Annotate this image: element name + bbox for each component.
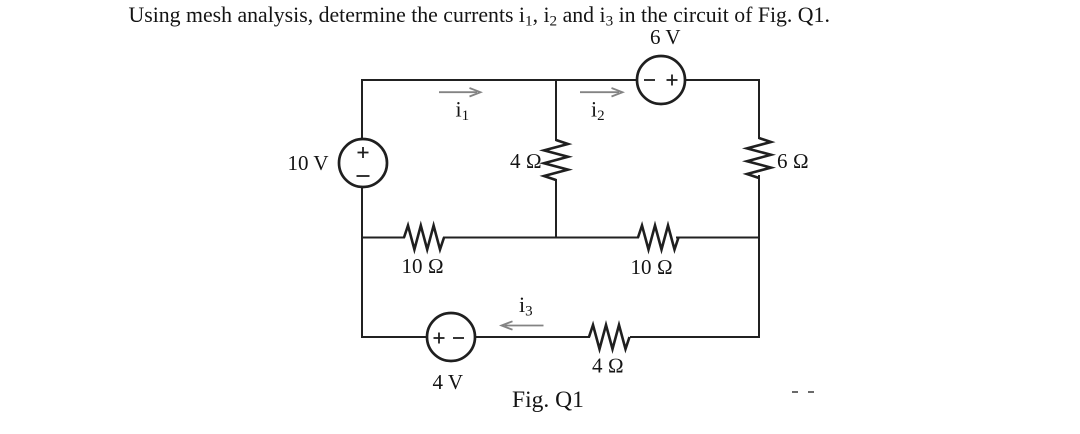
resistor 10 ohm (right, middle wire) (638, 226, 679, 250)
svg-text:i3: i3 (519, 292, 533, 320)
svg-text:4 V: 4 V (433, 370, 464, 394)
4V plus sign (434, 333, 445, 344)
wire middle branch upper (top wire to 4-ohm resistor) (555, 80, 557, 140)
current arrow i1 (439, 88, 481, 97)
wire bottom middle segment (4V source to 4-ohm resistor) (475, 336, 589, 338)
svg-text:i2: i2 (591, 97, 605, 125)
wire middle horizontal center segment (444, 237, 638, 239)
10V minus sign (357, 175, 370, 177)
stray mark left dash (792, 391, 798, 393)
svg-text:4 Ω: 4 Ω (592, 354, 624, 378)
4V minus sign (453, 337, 464, 339)
voltage source 6 V circle (637, 56, 685, 104)
6V minus sign (644, 79, 655, 81)
voltage source 4 V circle (427, 313, 475, 361)
svg-text:6 V: 6 V (650, 25, 681, 49)
svg-text:10 V: 10 V (288, 151, 329, 175)
wire bottom right segment (4-ohm resistor to bottom-right corner) (631, 336, 759, 338)
resistor 4 ohm (bottom wire) (589, 325, 630, 349)
10V plus sign (358, 147, 369, 158)
wire top-right (6V source to top-right corner) (685, 79, 759, 81)
svg-text:10 Ω: 10 Ω (402, 254, 444, 278)
resistor 6 ohm (vertical, right branch) (747, 138, 771, 178)
6V plus sign (667, 75, 678, 86)
svg-text:Fig. Q1: Fig. Q1 (512, 387, 584, 413)
stray mark right dash (808, 391, 814, 393)
svg-text:Using mesh analysis, determine: Using mesh analysis, determine the curre… (129, 3, 830, 30)
voltage source 10 V circle (339, 139, 387, 187)
wire left vertical upper (corner to 10V source) (361, 80, 363, 139)
resistor 10 ohm (left, middle wire) (404, 226, 444, 250)
svg-text:10 Ω: 10 Ω (631, 255, 673, 279)
wire right vertical upper (top-right corner to 6-ohm resistor) (758, 80, 760, 138)
current arrow i3 (pointing left) (502, 321, 544, 329)
wire right vertical lower (6-ohm resistor to bottom-right corner) (758, 176, 760, 337)
wire bottom left segment (corner to 4V source) (362, 336, 427, 338)
wire left vertical lower (10V source to bottom-left corner) (361, 187, 363, 337)
wire middle horizontal left segment (362, 237, 404, 239)
wire middle horizontal right segment (677, 237, 759, 239)
wire middle branch lower (4-ohm resistor to middle wire) (555, 180, 557, 238)
resistor 4 ohm (vertical, middle branch) (544, 140, 568, 180)
current arrow i2 (580, 88, 623, 97)
svg-text:4 Ω: 4 Ω (510, 149, 542, 173)
svg-text:i1: i1 (456, 97, 470, 125)
svg-text:6 Ω: 6 Ω (777, 149, 809, 173)
wire top-left horizontal (left corner to 6V source) (362, 79, 637, 81)
